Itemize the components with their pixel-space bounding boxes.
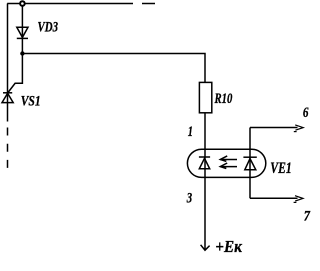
wire: left border line solid part	[7, 4, 9, 122]
wire: R10 bottom through optocoupler LED down to +Ek	[204, 113, 206, 249]
wire: output to pin 7	[250, 197, 298, 199]
photodiode inside VE1	[243, 157, 256, 170]
diode VD3	[17, 27, 28, 38]
arrowhead pin 6	[294, 125, 303, 132]
LED inside VE1	[199, 157, 210, 169]
node: junction below VD3	[20, 51, 24, 55]
svg-text:7: 7	[304, 209, 311, 225]
wire: top border line solid part	[7, 3, 133, 5]
arrowhead pin 7	[294, 196, 303, 203]
wire: left border line dashed part	[7, 128, 9, 169]
light arrow upper	[220, 156, 237, 162]
wire: top border line dashed part	[142, 3, 155, 5]
svg-text:VS1: VS1	[21, 94, 41, 110]
wire: from input terminal down to junction node	[21, 4, 23, 54]
thyristor VS1	[2, 93, 13, 103]
resistor R10	[199, 82, 211, 112]
svg-text:VE1: VE1	[270, 160, 291, 177]
svg-text:VD3: VD3	[38, 20, 59, 36]
wire: right vertical through photodiode	[249, 128, 251, 199]
arrowhead +Ek power	[201, 245, 210, 250]
wire: junction to R10 top	[22, 54, 205, 83]
node: input terminal circle	[20, 1, 25, 6]
svg-text:+Ек: +Ек	[215, 237, 242, 256]
svg-text:R10: R10	[214, 91, 233, 107]
svg-text:3: 3	[186, 191, 192, 207]
light arrow lower	[220, 163, 237, 169]
wire: gate from junction to VS1	[8, 54, 22, 93]
optocoupler VE1 body	[187, 149, 265, 177]
svg-text:6: 6	[303, 105, 309, 121]
svg-text:1: 1	[188, 124, 193, 140]
wire: output to pin 6	[250, 127, 298, 129]
